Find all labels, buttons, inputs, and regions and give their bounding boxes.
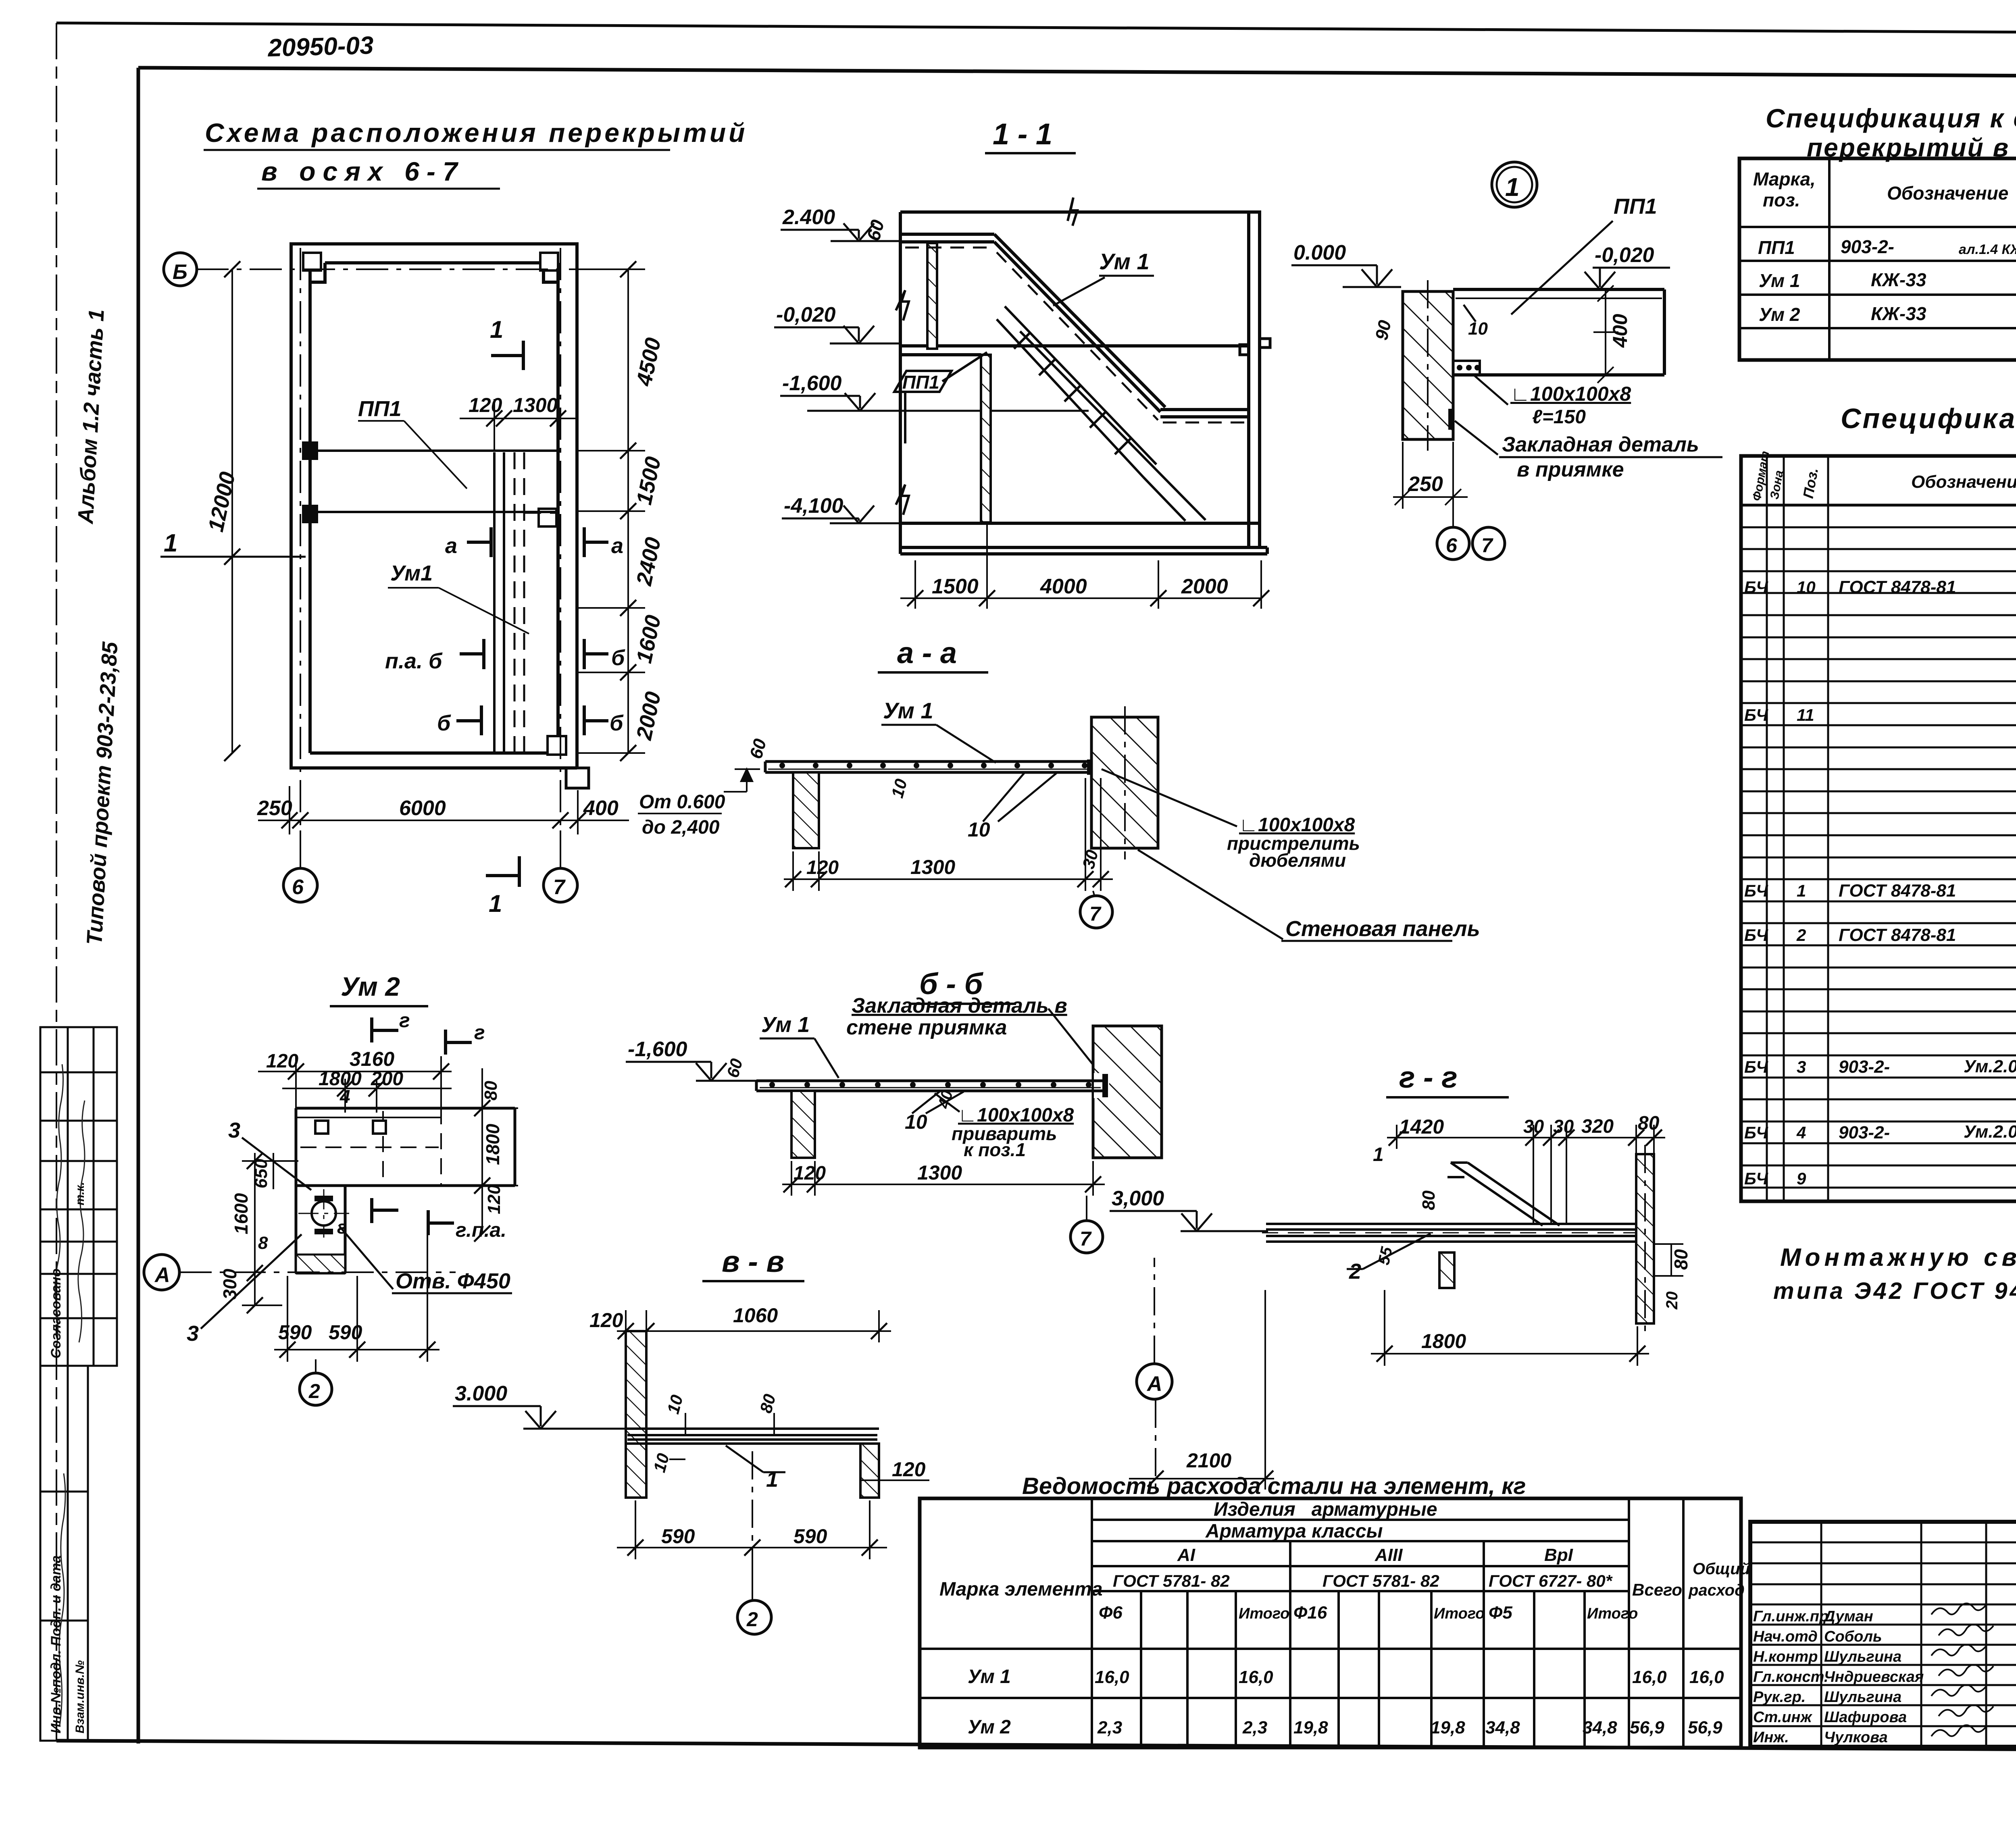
svg-text:10: 10: [968, 818, 990, 841]
svg-text:в осях 6-7: в осях 6-7: [261, 156, 465, 186]
svg-text:16,0: 16,0: [1689, 1667, 1724, 1687]
svg-text:п.а. б: п.а. б: [385, 649, 443, 673]
svg-text:80: 80: [1419, 1190, 1439, 1210]
svg-text:БЧ: БЧ: [1744, 1123, 1768, 1142]
svg-text:БЧ: БЧ: [1744, 926, 1768, 945]
svg-text:400: 400: [583, 797, 619, 820]
svg-text:Чндриевская: Чндриевская: [1824, 1669, 1924, 1685]
svg-text:Альбом 1.2 часть 1: Альбом 1.2 часть 1: [73, 308, 109, 525]
svg-text:10: 10: [650, 1451, 673, 1474]
svg-text:КЖ-33: КЖ-33: [1871, 303, 1926, 324]
svg-text:1500: 1500: [632, 455, 666, 507]
svg-text:Отв. Ф450: Отв. Ф450: [396, 1269, 510, 1293]
svg-text:1: 1: [766, 1467, 778, 1492]
svg-text:а: а: [445, 534, 457, 558]
svg-text:16,0: 16,0: [1095, 1667, 1129, 1687]
svg-text:Стеновая панель: Стеновая панель: [1285, 917, 1480, 941]
svg-text:Общий: Общий: [1693, 1560, 1750, 1578]
svg-text:типа Э42 ГОСТ 9467-75. высота: типа Э42 ГОСТ 9467-75. высота ·сварных ш…: [1773, 1278, 2016, 1304]
svg-text:БЧ: БЧ: [1744, 705, 1768, 724]
svg-text:Ум 1: Ум 1: [761, 1013, 810, 1037]
svg-text:10: 10: [887, 777, 910, 800]
svg-text:30: 30: [1553, 1116, 1574, 1137]
svg-text:1: 1: [1797, 881, 1806, 900]
svg-text:-0,020: -0,020: [1595, 243, 1654, 267]
svg-text:4: 4: [339, 1086, 350, 1107]
svg-text:590: 590: [661, 1525, 695, 1548]
svg-text:Ум1: Ум1: [390, 561, 433, 585]
svg-text:80: 80: [756, 1392, 779, 1415]
svg-text:120: 120: [484, 1184, 504, 1214]
svg-text:1: 1: [490, 316, 503, 343]
svg-text:1: 1: [1373, 1144, 1384, 1165]
svg-text:1: 1: [1505, 173, 1520, 202]
svg-text:АIII: АIII: [1375, 1545, 1403, 1565]
svg-text:0.000: 0.000: [1293, 241, 1346, 264]
svg-text:Шафирова: Шафирова: [1824, 1709, 1907, 1726]
svg-text:Согласовано: Согласовано: [48, 1268, 64, 1359]
svg-text:Обозначение: Обозначение: [1887, 183, 2008, 204]
svg-text:56,9: 56,9: [1630, 1718, 1664, 1737]
svg-text:4: 4: [1796, 1123, 1806, 1142]
svg-text:б: б: [437, 711, 451, 735]
svg-text:Чулкова: Чулкова: [1824, 1729, 1888, 1746]
svg-text:ал.1.4 КЖИ.02.1: ал.1.4 КЖИ.02.1: [1959, 242, 2016, 257]
svg-text:Поз.: Поз.: [1800, 466, 1822, 499]
svg-text:903-2-: 903-2-: [1841, 236, 1894, 257]
svg-text:до 2,400: до 2,400: [642, 817, 720, 838]
svg-text:1800: 1800: [1421, 1330, 1466, 1352]
svg-text:∟100х100х8: ∟100х100х8: [1510, 383, 1631, 405]
svg-text:16,0: 16,0: [1632, 1667, 1667, 1687]
svg-text:1300: 1300: [513, 394, 558, 416]
svg-text:2000: 2000: [1181, 575, 1228, 598]
svg-text:Думан: Думан: [1823, 1608, 1873, 1625]
svg-text:Всего: Всего: [1632, 1580, 1682, 1599]
svg-text:120: 120: [892, 1458, 926, 1481]
svg-text:-4,100: -4,100: [784, 494, 843, 518]
svg-text:ГОСТ 8478-81: ГОСТ 8478-81: [1839, 881, 1956, 901]
svg-text:1: 1: [164, 529, 177, 557]
svg-text:ПП1: ПП1: [1758, 237, 1795, 258]
svg-text:Инж.: Инж.: [1753, 1729, 1789, 1746]
svg-text:200: 200: [371, 1068, 403, 1090]
svg-text:120: 120: [589, 1309, 623, 1332]
svg-text:250: 250: [257, 797, 292, 820]
svg-text:1 - 1: 1 - 1: [993, 117, 1052, 151]
svg-text:Ф6: Ф6: [1099, 1603, 1123, 1623]
svg-text:в - в: в - в: [722, 1245, 784, 1278]
svg-text:ГОСТ 8478-81: ГОСТ 8478-81: [1839, 577, 1956, 597]
svg-text:1420: 1420: [1399, 1115, 1444, 1138]
svg-text:3160: 3160: [350, 1048, 394, 1070]
svg-text:ГОСТ 5781- 82: ГОСТ 5781- 82: [1113, 1571, 1230, 1590]
svg-text:ГОСТ 5781- 82: ГОСТ 5781- 82: [1322, 1571, 1439, 1590]
svg-text:Ведомость расхода стали на эл: Ведомость расхода стали на элемент, кг: [1022, 1473, 1526, 1499]
svg-text:ГОСТ 8478-81: ГОСТ 8478-81: [1839, 925, 1956, 945]
svg-text:а - а: а - а: [897, 636, 957, 670]
svg-text:56,9: 56,9: [1688, 1718, 1722, 1737]
svg-text:4500: 4500: [632, 336, 666, 389]
svg-text:Инв.№подл. Подп. и дата: Инв.№подл. Подп. и дата: [48, 1555, 64, 1733]
svg-text:Нач.отд: Нач.отд: [1753, 1628, 1818, 1645]
svg-text:БЧ: БЧ: [1744, 881, 1768, 900]
svg-text:7: 7: [553, 876, 566, 899]
svg-text:г: г: [399, 1009, 410, 1032]
svg-text:2100: 2100: [1186, 1449, 1231, 1472]
svg-text:11: 11: [1797, 705, 1814, 724]
svg-text:Шульгина: Шульгина: [1824, 1689, 1901, 1706]
svg-text:Ум.2.002: Ум.2.002: [1964, 1122, 2016, 1142]
svg-text:ПП1: ПП1: [902, 372, 939, 393]
svg-text:60: 60: [862, 217, 888, 243]
svg-text:2: 2: [1349, 1259, 1361, 1284]
svg-text:1600: 1600: [231, 1193, 252, 1234]
svg-text:34,8: 34,8: [1583, 1718, 1617, 1737]
svg-text:2000: 2000: [632, 690, 666, 743]
svg-text:Ум.2.001: Ум.2.001: [1964, 1057, 2016, 1076]
svg-text:1500: 1500: [932, 575, 979, 598]
svg-text:А: А: [154, 1263, 170, 1287]
svg-text:Ум 1: Ум 1: [883, 698, 933, 723]
svg-text:3,000: 3,000: [1112, 1187, 1164, 1210]
svg-text:расход: расход: [1688, 1581, 1745, 1599]
svg-text:Н.контр: Н.контр: [1753, 1648, 1818, 1665]
svg-text:Изделия арматурные: Изделия арматурные: [1214, 1499, 1437, 1520]
svg-text:80: 80: [1638, 1113, 1660, 1134]
svg-text:КЖ-33: КЖ-33: [1871, 269, 1926, 290]
svg-text:Гл.конст.: Гл.конст.: [1753, 1669, 1828, 1685]
svg-text:Закладная деталь: Закладная деталь: [1502, 433, 1699, 456]
svg-text:9: 9: [1797, 1169, 1806, 1188]
svg-text:т.к.: т.к.: [73, 1182, 87, 1205]
svg-text:Ум 2: Ум 2: [341, 972, 400, 1001]
svg-text:7: 7: [1481, 534, 1493, 557]
svg-text:От 0.600: От 0.600: [639, 791, 725, 813]
svg-text:400: 400: [1609, 314, 1631, 348]
svg-text:Ф5: Ф5: [1489, 1603, 1512, 1623]
svg-text:250: 250: [1408, 472, 1443, 496]
svg-text:2: 2: [308, 1380, 320, 1402]
svg-text:Шульгина: Шульгина: [1824, 1648, 1901, 1665]
svg-text:г.п.а.: г.п.а.: [456, 1219, 506, 1241]
svg-text:2: 2: [1796, 926, 1806, 945]
svg-text:Ум 1: Ум 1: [1099, 249, 1150, 274]
svg-text:19,8: 19,8: [1293, 1718, 1328, 1737]
svg-text:2.400: 2.400: [782, 206, 835, 229]
svg-text:10: 10: [905, 1111, 927, 1133]
svg-text:7: 7: [1089, 903, 1102, 925]
svg-text:Итого: Итого: [1434, 1605, 1485, 1622]
svg-text:б: б: [611, 646, 625, 670]
svg-text:-1,600: -1,600: [782, 372, 842, 395]
svg-text:стене приямка: стене приямка: [846, 1016, 1007, 1039]
svg-text:г: г: [337, 1217, 347, 1238]
svg-text:Арматура классы: Арматура классы: [1205, 1521, 1383, 1542]
svg-text:БЧ: БЧ: [1744, 1169, 1768, 1188]
svg-text:590: 590: [278, 1321, 312, 1344]
svg-text:90: 90: [1372, 318, 1395, 342]
svg-text:30: 30: [1523, 1116, 1544, 1137]
svg-text:Обозначение: Обозначение: [1911, 472, 2016, 492]
svg-text:590: 590: [329, 1321, 362, 1344]
svg-text:2,3: 2,3: [1097, 1718, 1122, 1737]
svg-text:10: 10: [1797, 578, 1816, 597]
svg-text:ГОСТ 6727- 80*: ГОСТ 6727- 80*: [1489, 1571, 1613, 1590]
svg-text:590: 590: [793, 1525, 827, 1548]
svg-text:16,0: 16,0: [1239, 1667, 1273, 1687]
svg-text:2,3: 2,3: [1242, 1718, 1267, 1737]
svg-text:-0,020: -0,020: [776, 303, 836, 327]
svg-text:60: 60: [746, 737, 770, 761]
svg-text:в приямке: в приямке: [1517, 458, 1624, 481]
svg-text:120: 120: [806, 857, 839, 878]
svg-text:ПП1: ПП1: [1614, 194, 1657, 218]
svg-text:55: 55: [1375, 1245, 1396, 1266]
svg-text:Монтажную сварку выполнять эле: Монтажную сварку выполнять электродати: [1780, 1244, 2016, 1271]
svg-text:Закладная деталь в: Закладная деталь в: [852, 994, 1067, 1017]
svg-text:Ум 1: Ум 1: [968, 1666, 1011, 1687]
svg-text:Ум 2: Ум 2: [1759, 304, 1800, 325]
svg-text:6: 6: [1446, 534, 1458, 557]
svg-text:к поз.1: к поз.1: [964, 1139, 1026, 1160]
svg-text:3.000: 3.000: [455, 1382, 507, 1405]
svg-text:дюбелями: дюбелями: [1249, 850, 1346, 871]
svg-text:ВрI: ВрI: [1544, 1545, 1573, 1565]
svg-text:1300: 1300: [910, 856, 955, 878]
svg-text:2: 2: [746, 1608, 758, 1631]
svg-text:г: г: [474, 1021, 485, 1044]
svg-text:10: 10: [1468, 319, 1488, 339]
svg-text:20950-03: 20950-03: [267, 31, 374, 62]
svg-text:20: 20: [1663, 1292, 1681, 1310]
svg-text:10: 10: [663, 1393, 686, 1416]
svg-text:4000: 4000: [1040, 575, 1087, 598]
svg-text:Ст.инж: Ст.инж: [1753, 1709, 1812, 1726]
svg-text:60: 60: [723, 1057, 746, 1080]
svg-text:34,8: 34,8: [1485, 1718, 1520, 1737]
svg-text:ℓ=150: ℓ=150: [1532, 406, 1586, 428]
svg-text:80: 80: [481, 1081, 501, 1101]
svg-text:6: 6: [292, 876, 304, 899]
svg-text:19,8: 19,8: [1431, 1718, 1465, 1737]
svg-text:Ум 2: Ум 2: [968, 1716, 1011, 1738]
svg-text:300: 300: [219, 1269, 240, 1300]
svg-text:Гл.инж.пр.: Гл.инж.пр.: [1753, 1608, 1833, 1625]
svg-text:поз.: поз.: [1763, 189, 1800, 210]
svg-text:БЧ: БЧ: [1744, 1057, 1768, 1076]
svg-text:а: а: [611, 534, 623, 558]
svg-text:АI: АI: [1177, 1545, 1195, 1565]
svg-text:Взам.инв.№: Взам.инв.№: [73, 1660, 87, 1733]
svg-text:Марка,: Марка,: [1753, 169, 1816, 189]
svg-text:1600: 1600: [632, 613, 666, 666]
svg-text:80: 80: [1670, 1249, 1691, 1270]
svg-text:б: б: [610, 711, 624, 735]
svg-text:БЧ: БЧ: [1744, 578, 1768, 597]
svg-text:Типовой проект 903-2-23,85: Типовой проект 903-2-23,85: [82, 641, 122, 946]
svg-text:А: А: [1146, 1372, 1162, 1396]
svg-text:Ум 1: Ум 1: [1759, 270, 1800, 291]
svg-text:30: 30: [1079, 848, 1102, 871]
svg-text:120: 120: [793, 1163, 826, 1184]
svg-text:8: 8: [258, 1233, 268, 1253]
svg-text:6000: 6000: [399, 797, 446, 820]
svg-text:Итого: Итого: [1239, 1605, 1289, 1622]
svg-text:650: 650: [251, 1159, 271, 1188]
svg-text:3: 3: [228, 1118, 240, 1142]
svg-text:120: 120: [469, 394, 502, 416]
svg-text:ПП1: ПП1: [358, 397, 402, 421]
svg-text:903-2-: 903-2-: [1839, 1057, 1890, 1077]
svg-text:12000: 12000: [204, 470, 240, 534]
svg-text:Схема расположения перекрытий: Схема расположения перекрытий: [205, 118, 748, 148]
svg-text:Соболь: Соболь: [1824, 1628, 1882, 1645]
svg-text:903-2-: 903-2-: [1839, 1123, 1890, 1142]
svg-text:г - г: г - г: [1399, 1061, 1458, 1094]
svg-text:Итого: Итого: [1587, 1605, 1638, 1622]
svg-text:7: 7: [1080, 1228, 1092, 1250]
svg-text:320: 320: [1581, 1116, 1614, 1137]
svg-text:1300: 1300: [917, 1161, 962, 1184]
svg-text:Марка элемента: Марка элемента: [939, 1579, 1103, 1600]
svg-text:1060: 1060: [733, 1304, 778, 1327]
svg-text:1800: 1800: [482, 1124, 503, 1165]
svg-text:120: 120: [266, 1051, 298, 1072]
svg-text:Спецификация Ум 1 и Ум 2: Спецификация Ум 1 и Ум 2: [1841, 403, 2016, 434]
svg-text:-1,600: -1,600: [628, 1038, 687, 1061]
svg-text:3: 3: [187, 1321, 199, 1346]
svg-text:2400: 2400: [632, 535, 666, 588]
svg-text:Ф16: Ф16: [1293, 1603, 1327, 1623]
svg-text:Рук.гр.: Рук.гр.: [1753, 1689, 1806, 1706]
svg-text:3: 3: [1797, 1057, 1806, 1076]
svg-text:1: 1: [489, 890, 502, 917]
svg-text:Спецификация к схеме расположе: Спецификация к схеме расположения: [1766, 103, 2016, 133]
svg-text:Б: Б: [173, 260, 187, 284]
